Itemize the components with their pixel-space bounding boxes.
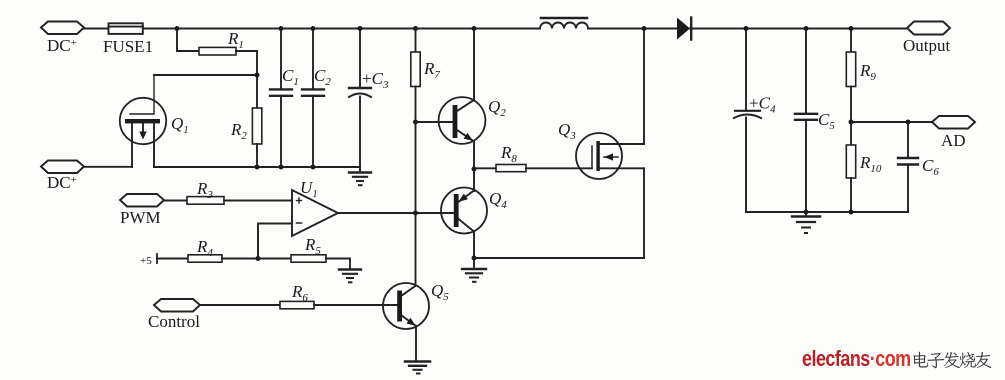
node C5 bottom — [804, 210, 809, 215]
wire Control to R6 — [200, 304, 280, 306]
connector DC+ bottom — [41, 161, 84, 174]
transistor Q1 MOSFET — [120, 75, 166, 167]
wire Q2 collector up — [473, 29, 475, 101]
node R1 branch — [175, 26, 180, 31]
node R9 top — [849, 26, 854, 31]
wire top rail right — [588, 28, 907, 30]
wire R1 to R2 junction — [236, 51, 257, 108]
wire Q4 collector down — [473, 232, 475, 259]
capacitor C5 — [795, 29, 817, 213]
wire R1 branch down — [177, 29, 199, 52]
watermark chinese 电子发烧友 — [913, 352, 991, 369]
inductor L — [540, 18, 588, 29]
wire R8 left — [474, 167, 496, 169]
node C3 top — [358, 26, 363, 31]
resistor R9 — [846, 29, 855, 123]
node R4-R5 junction — [256, 256, 261, 261]
node C1 top — [279, 26, 284, 31]
connector DC+ top — [41, 22, 84, 35]
ground under Q4 — [462, 258, 486, 282]
wire bottom-right rail — [746, 211, 908, 213]
resistor R1 — [199, 47, 236, 55]
node U1 output junction — [413, 211, 418, 216]
resistor R4 — [188, 255, 222, 262]
node R10 bottom — [849, 210, 854, 215]
node C5 top — [804, 26, 809, 31]
watermark elecfans.com — [802, 347, 911, 371]
node C2 bottom — [311, 165, 316, 170]
wire Q4 to Q3 source — [474, 257, 644, 259]
ground under R5 — [339, 270, 361, 283]
transistor Q4 — [441, 188, 487, 234]
svg-text:Output: Output — [903, 36, 951, 55]
wire R3 to U1 — [224, 200, 292, 202]
ground under Q5 — [405, 362, 430, 374]
resistor R5 — [291, 255, 326, 262]
wire Q3 drain up — [643, 29, 645, 145]
wire Q2 emitter down — [473, 141, 475, 169]
wire AD row — [851, 121, 932, 123]
wire Q3 source down — [643, 168, 645, 258]
wire Q5 emitter down — [415, 326, 417, 361]
node R9-R10 junction — [849, 120, 854, 125]
resistor R6 — [280, 301, 314, 308]
wire bottom-left rail — [154, 166, 360, 168]
terminal +5 tick — [156, 254, 158, 263]
capacitor C3 electrolytic — [349, 29, 371, 168]
wire U1 inverting input — [258, 224, 292, 259]
diode D1 — [677, 18, 691, 40]
wire Q2 base — [416, 121, 453, 123]
capacitor C6 — [898, 122, 918, 212]
svg-text:PWM: PWM — [120, 208, 161, 227]
connector Control — [154, 299, 200, 312]
wire R4 to junction — [222, 258, 291, 260]
wire Q5 collector up — [415, 213, 417, 286]
wire R2 bottom — [256, 144, 258, 167]
connector PWM — [120, 194, 164, 207]
connector AD — [932, 116, 975, 129]
node gate junction — [255, 73, 260, 78]
ground under C5 — [792, 212, 820, 233]
wire top rail left — [84, 28, 540, 30]
resistor R7 — [411, 29, 420, 214]
ground under C3 — [349, 167, 371, 185]
node Q2 collector top — [472, 26, 477, 31]
wire Q4 emitter up — [473, 169, 475, 191]
wire PWM to R3 — [164, 200, 187, 202]
wire Q1 gate horizontal — [154, 74, 257, 76]
transistor Q2 — [439, 97, 486, 144]
connector Output — [907, 22, 950, 35]
node R8 junction — [472, 167, 477, 172]
fuse FUSE1 — [109, 23, 143, 34]
svg-text:+5: +5 — [140, 255, 152, 267]
node Q2 base junction — [413, 120, 418, 125]
op-amp U1 — [292, 190, 338, 236]
svg-text:FUSE1: FUSE1 — [103, 37, 153, 56]
node Q4 bottom junction — [472, 256, 477, 261]
capacitor C4 electrolytic — [734, 29, 761, 213]
svg-text:elecfans·com: elecfans·com — [802, 347, 911, 371]
node C4 top — [744, 26, 749, 31]
node C6 top — [906, 120, 911, 125]
node C1 bottom — [279, 165, 284, 170]
capacitor C2 — [302, 29, 324, 168]
wire +5 to R4 — [157, 258, 188, 260]
wire R6 to Q5 base — [314, 304, 397, 306]
node R2 bottom — [255, 165, 260, 170]
resistor R3 — [187, 197, 224, 205]
node C2 top — [311, 26, 316, 31]
capacitor C1 — [270, 29, 292, 168]
resistor R8 — [496, 165, 526, 172]
transistor Q3 MOSFET — [576, 133, 644, 179]
node Q3 drain top — [642, 26, 647, 31]
svg-text:Control: Control — [148, 312, 200, 331]
resistor R10 — [846, 122, 855, 212]
wire R5 to ground — [326, 259, 350, 270]
svg-text:AD: AD — [941, 131, 966, 150]
wire R8 to Q3 gate — [526, 167, 592, 169]
transistor Q5 — [383, 283, 429, 329]
resistor R2 — [252, 108, 261, 144]
wire U1 output — [338, 212, 453, 214]
node R7 top — [413, 26, 418, 31]
wire DC+ bottom to Q1 — [84, 166, 132, 168]
